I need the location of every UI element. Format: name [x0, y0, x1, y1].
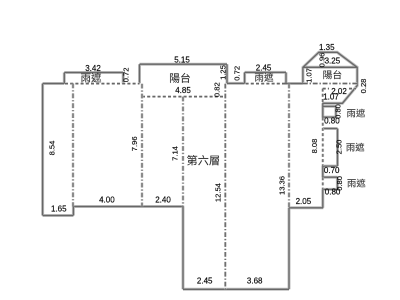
svg-text:1.65: 1.65	[51, 205, 67, 214]
svg-text:0.82: 0.82	[213, 82, 222, 97]
svg-text:4.85: 4.85	[175, 86, 191, 95]
svg-text:3.68: 3.68	[247, 277, 263, 286]
svg-text:0.70: 0.70	[324, 166, 340, 175]
svg-text:4.00: 4.00	[99, 195, 115, 204]
svg-text:1.07: 1.07	[304, 68, 313, 83]
svg-text:0.72: 0.72	[122, 68, 131, 83]
svg-text:7.96: 7.96	[130, 136, 139, 151]
svg-text:2.50: 2.50	[335, 140, 344, 155]
svg-text:13.36: 13.36	[277, 176, 286, 195]
svg-text:2.45: 2.45	[256, 64, 272, 73]
svg-text:12.54: 12.54	[213, 183, 222, 202]
svg-text:5.15: 5.15	[174, 56, 190, 65]
svg-text:2.05: 2.05	[296, 197, 312, 206]
svg-text:7.14: 7.14	[171, 146, 180, 161]
svg-text:0.80: 0.80	[335, 176, 344, 191]
svg-text:1.07: 1.07	[323, 93, 339, 102]
svg-text:3.25: 3.25	[325, 57, 341, 66]
svg-text:0.28: 0.28	[359, 79, 368, 94]
svg-text:1.25: 1.25	[219, 65, 228, 80]
svg-text:3.42: 3.42	[85, 64, 101, 73]
svg-text:8.54: 8.54	[48, 141, 57, 156]
svg-text:0.72: 0.72	[233, 66, 242, 81]
svg-text:2.40: 2.40	[155, 195, 171, 204]
svg-text:1.35: 1.35	[319, 43, 335, 52]
svg-text:0.80: 0.80	[333, 104, 342, 119]
svg-text:0.96: 0.96	[318, 53, 327, 68]
svg-text:8.08: 8.08	[310, 139, 319, 154]
svg-text:2.45: 2.45	[197, 277, 213, 286]
